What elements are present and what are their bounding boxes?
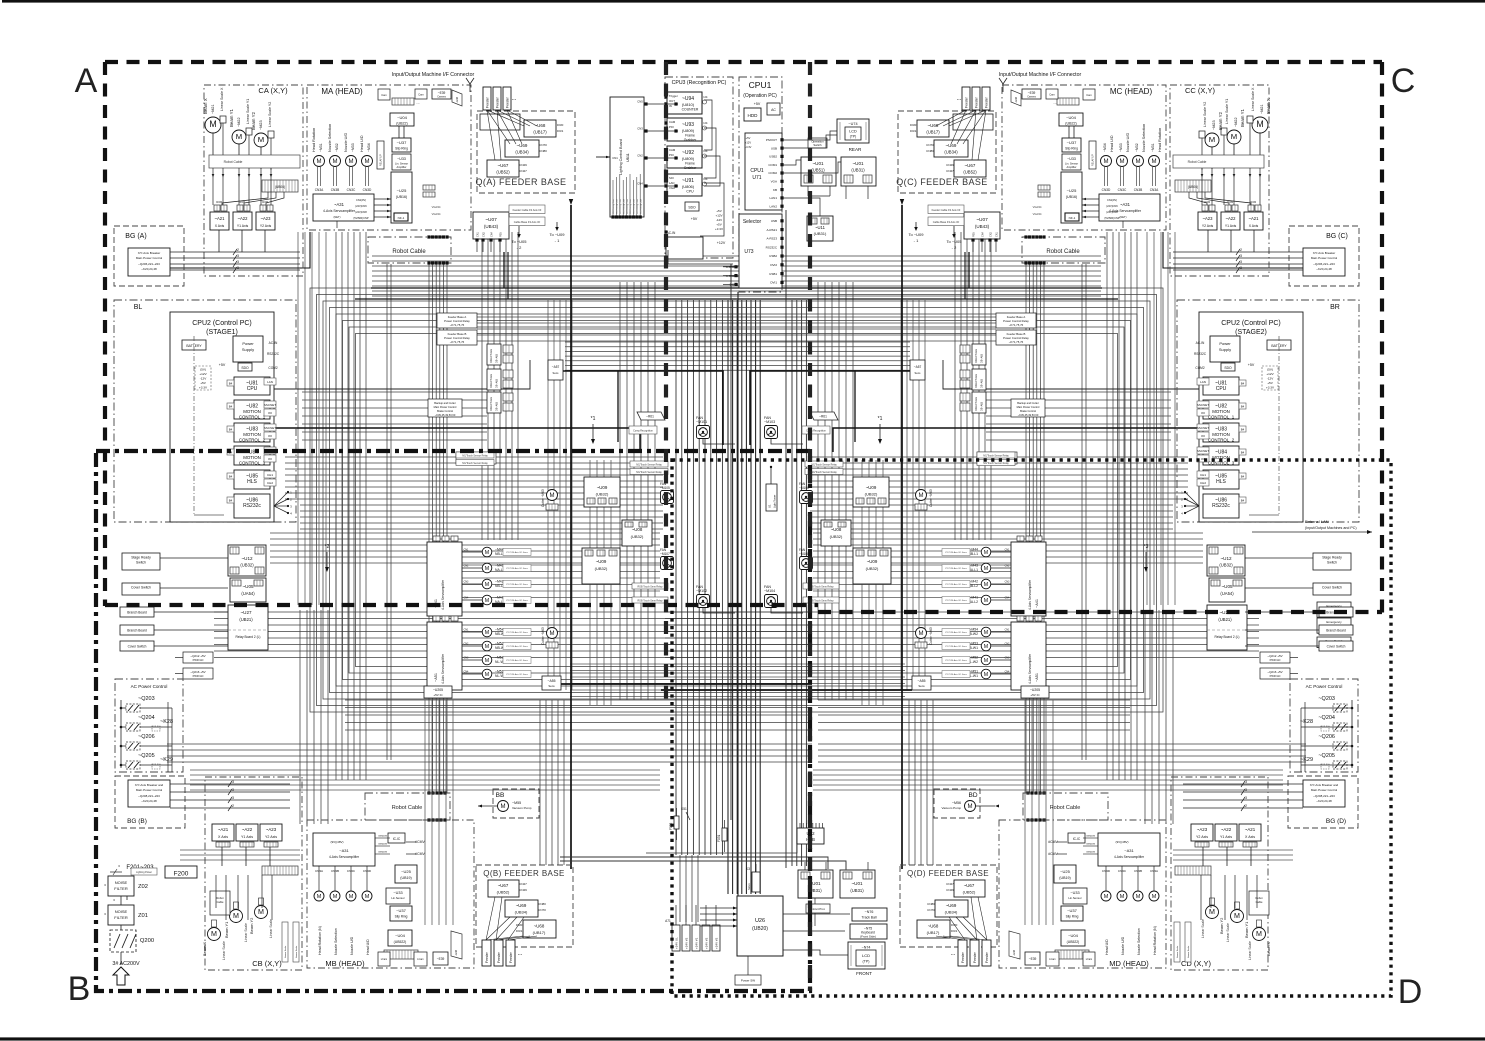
svg-text:A-RS21: A-RS21 (766, 228, 777, 232)
svg-text:HLS: HLS (1216, 479, 1226, 485)
svg-text:CN4: CN4 (464, 597, 469, 600)
wire bus center-upper 3 (565, 355, 910, 357)
block Lighting Control Board UB11 (610, 97, 644, 217)
svg-text:Branch Board: Branch Board (127, 611, 147, 615)
wire axis-cb 1 (CD) (1226, 847, 1228, 866)
wire bus left-ca 5 (365, 232, 367, 780)
svg-text:LCam: LCam (417, 958, 423, 961)
wire bus left-ca2 3 (318, 232, 320, 605)
wire bus mid2-right 5 (813, 562, 1203, 564)
wire bus center-l 6 (710, 300, 712, 855)
block U04 (UB522) (MB) (388, 930, 412, 946)
block +24V #1 2 (692, 925, 700, 951)
block AC inlet CPU1 (767, 103, 780, 115)
motor ~M32 (MA) (330, 156, 341, 167)
block ~A22 Y1 Axis (CA) (233, 212, 252, 230)
block U205 (1021, 686, 1049, 698)
motor M23 (CB) (255, 906, 268, 919)
wire to-U05 arrow (953, 226, 955, 237)
svg-text:~M103: ~M103 (764, 420, 775, 424)
block SDO CPU3 (685, 202, 699, 211)
block power SW (735, 975, 761, 985)
svg-text:- 2: - 2 (517, 245, 522, 250)
svg-text:Trigger: Trigger (669, 94, 678, 98)
svg-text:CONTROL_3: CONTROL_3 (239, 460, 266, 465)
svg-text:CN3D: CN3D (363, 869, 372, 873)
junction row robot-top r 263 (1024, 261, 1027, 264)
svg-text:(UB32): (UB32) (631, 534, 644, 539)
svg-text:3: 3 (232, 796, 234, 800)
block SDO (STAGE2) (1221, 363, 1235, 371)
svg-text:(UB52): (UB52) (496, 170, 510, 175)
wire feeder cross 7 (Q(D)) (971, 897, 977, 940)
svg-text:Stage Ready: Stage Ready (1322, 556, 1342, 560)
motor ~M33 (MC) (1117, 156, 1128, 167)
svg-text:~U69: ~U69 (946, 903, 957, 908)
svg-text:CONTROL_2: CONTROL_2 (239, 437, 266, 442)
svg-text:MOTION: MOTION (1212, 432, 1230, 437)
wire motor feed 3 (CA) (248, 168, 250, 205)
wire bus db-rows-left 6 (302, 439, 487, 441)
wire ~Q204 out (D) (1301, 726, 1333, 728)
svg-text:~K71,75,76: ~K71,75,76 (450, 340, 465, 344)
block AC Power Control (B) frame (115, 679, 183, 772)
junction row robot-bot r 793 (1026, 791, 1029, 794)
wire bus right-mid 3 (838, 282, 840, 700)
relay label Feeder Base A (996, 313, 1036, 328)
wire bus qb-up 2 (551, 700, 553, 865)
wire bus mid-left 1 (285, 462, 663, 464)
wire RS232c fan 2 (STAGE2) (1185, 505, 1199, 507)
sensor label ~M53 (left) (503, 643, 531, 650)
svg-text:NOISE: NOISE (115, 909, 128, 914)
svg-text:CN3: CN3 (1005, 657, 1010, 660)
wire bus db-rows-right 6 (986, 439, 1171, 441)
scale bar 1 (CB) (293, 922, 299, 962)
wire bus mid2-left 5 (270, 562, 660, 564)
svg-text:I24: I24 (704, 95, 708, 99)
svg-text:Robot Cable: Robot Cable (1046, 249, 1080, 255)
svg-text:XY PCB Axis I/O Sens: XY PCB Axis I/O Sens (506, 599, 529, 602)
svg-text:4-Axis Servoamplifier: 4-Axis Servoamplifier (1028, 653, 1032, 684)
wire strip-axis 1 (CA) (244, 192, 276, 205)
wire bus right-mid 5 (852, 282, 854, 700)
wire bus right-robot2 0 (1081, 264, 1083, 760)
wire bus left-qa 4 (505, 232, 507, 540)
svg-text:M: M (236, 132, 242, 141)
block U05 (UA54) (right) (1209, 578, 1245, 602)
wire bus left-ca 1 (341, 232, 343, 780)
svg-text:- 1: - 1 (555, 238, 560, 243)
wire bus center-r 4 (745, 300, 747, 894)
wire lighting channel 8 (639, 174, 641, 217)
svg-text:CN1: CN1 (477, 232, 480, 237)
wire motor feed 1 (CC) (1249, 168, 1251, 205)
svg-text:CN2: CN2 (464, 565, 469, 568)
block ~U92 (U809) (667, 146, 702, 168)
breaker ~Q206 (B) (126, 742, 140, 750)
breaker ~Q206 (D) (1333, 742, 1347, 750)
relay label box 1 (928, 205, 964, 214)
svg-text:Q200: Q200 (140, 938, 154, 944)
svg-text:Main Power Control: Main Power Control (136, 256, 163, 260)
wire to-U09 arrow (556, 222, 558, 230)
wire bus qb-up 4 (563, 700, 565, 865)
block E39 (MD) (1025, 952, 1040, 965)
svg-text:F200: F200 (174, 871, 189, 878)
svg-text:4-Axis Servoamplifier: 4-Axis Servoamplifier (1028, 579, 1032, 610)
block U68 (UB17) (Q(D)) (917, 920, 950, 938)
wire bus acrow-left-lo 1 (167, 749, 812, 751)
svg-text:~U01: ~U01 (851, 881, 863, 886)
svg-text:M: M (365, 894, 370, 900)
svg-text:To ~U09: To ~U09 (549, 232, 565, 237)
svg-text:~Q206,221~223: ~Q206,221~223 (138, 262, 160, 266)
motor ~M43 (right) (981, 563, 991, 573)
wire bus top-center 4 (372, 275, 1101, 277)
svg-text:Head Rotation (N): Head Rotation (N) (318, 926, 322, 955)
svg-text:+5V: +5V (200, 381, 207, 385)
block U74 LCD TP rear (837, 119, 869, 143)
wire bus qd-up 2 (920, 700, 922, 865)
connector strip U06 (CC) (1175, 180, 1211, 192)
svg-text:CN3D: CN3D (1102, 188, 1111, 192)
connector strip U06 (CA) (262, 180, 298, 192)
wire bus db-rows-right 4 (986, 423, 1171, 425)
wire bus right-low 4 (1172, 610, 1174, 824)
wire bus center-l 1 (681, 300, 683, 855)
sensor label ~M52 (left) (503, 657, 531, 664)
svg-text:USB: USB (771, 219, 777, 223)
svg-text:IN: IN (669, 104, 672, 108)
block Selector U73 (739, 214, 782, 288)
wire bus right-cc2 1 (1153, 232, 1155, 605)
camera box 1 (MC) (1083, 89, 1095, 100)
wire bus center-r 5 (750, 300, 752, 894)
svg-text:Feeder: Feeder (985, 96, 989, 108)
svg-text:(UB17): (UB17) (533, 930, 546, 935)
wire A31 aux 1 (MD) (1083, 845, 1098, 847)
wire power drop right (901, 205, 903, 869)
motor ~M31 (MD) (1149, 891, 1159, 901)
wire U26-N75 (783, 930, 845, 932)
svg-text:CN8(2W): CN8(2W) (378, 844, 387, 846)
svg-text:~K71,75,76: ~K71,75,76 (1009, 323, 1024, 327)
wire bus acrow-right-lo 3 (818, 761, 1306, 763)
wire bus acrow-left-hi 1 (345, 707, 812, 709)
svg-text:FILTER: FILTER (114, 886, 128, 891)
block ~A22 Y1 Axis (bottom l) (236, 824, 258, 841)
svg-text:Main Power Control: Main Power Control (1017, 405, 1040, 409)
svg-text:CN4: CN4 (637, 182, 643, 186)
svg-text:2: 2 (232, 804, 234, 808)
wire RS232c fan 1 (STAGE2) (1185, 499, 1199, 506)
wire ~Q204 out (B) (140, 726, 172, 728)
svg-text:Feeder: Feeder (961, 951, 965, 963)
sensor label ~M52 (right) (942, 657, 970, 664)
wire Branch Board 625 (l) (154, 629, 228, 631)
svg-text:CN80: CN80 (538, 902, 546, 906)
svg-text:Feeder: Feeder (965, 96, 969, 108)
wire feeder cross 1 (Q(B)) (496, 936, 530, 940)
svg-text:CN30: CN30 (239, 201, 246, 204)
svg-text:~M108: ~M108 (799, 552, 809, 556)
wire bus a2x-cb-right 1 (1173, 854, 1293, 856)
wire bus left-u09 0 (589, 460, 591, 705)
svg-text:(24V)CN8: (24V)CN8 (1106, 210, 1118, 214)
svg-text:M: M (1234, 912, 1240, 920)
block BG (A) frame (114, 226, 184, 286)
svg-text:Selector: Selector (743, 219, 762, 225)
wire bus mid-cross-l 4 (300, 528, 663, 530)
svg-text:M: M (1209, 908, 1215, 916)
svg-text:CN80: CN80 (539, 149, 547, 153)
wire bus mid3-left 2 (445, 577, 660, 579)
wire ~Q205 out (D) (1301, 764, 1333, 766)
svg-text:~M21: ~M21 (211, 104, 215, 114)
svg-text:*2: *2 (325, 544, 330, 550)
svg-text:C: C (1391, 62, 1416, 100)
wire Branch Board 607 (r) (1245, 611, 1319, 613)
block U33 (MD) (1063, 888, 1087, 904)
svg-text:-12V: -12V (200, 377, 207, 381)
svg-text:CN29: CN29 (519, 163, 527, 167)
block U04 (UB22) (MC) (1059, 113, 1083, 126)
wire bus center-r 3 (741, 300, 743, 894)
block Q(D) FEEDER BASE frame (900, 865, 997, 947)
frame region C bottom (818, 610, 1382, 614)
svg-text:M: M (1152, 894, 1157, 900)
svg-text:BG (C): BG (C) (1326, 233, 1348, 240)
svg-text:~Q212 +5V: ~Q212 +5V (190, 654, 205, 658)
wire bus mid2-right 1 (813, 538, 1203, 540)
svg-text:+5V: +5V (219, 363, 226, 367)
svg-text:M: M (1256, 119, 1263, 129)
svg-text:(Input/Output Machines and PC): (Input/Output Machines and PC) (1305, 526, 1357, 530)
svg-text:Sens: Sens (548, 684, 555, 688)
svg-text:~M23: ~M23 (1212, 120, 1216, 130)
svg-text:Cutter ~M63: Cutter ~M63 (541, 489, 545, 507)
wire power trunk left (561, 683, 812, 685)
wire lighting channel 1 (615, 177, 617, 217)
wire bus mid2-right 2 (813, 544, 1203, 546)
wire servo-motor ~M42 (left) (462, 583, 482, 585)
svg-text:CN3B: CN3B (1134, 188, 1143, 192)
wire bus mid3-right 1 (813, 571, 1028, 573)
motor ~M23 (CA) (254, 133, 268, 147)
svg-text:I24: I24 (704, 177, 708, 181)
svg-text:~U04: ~U04 (1068, 933, 1078, 938)
wire bus mid-cross-r 1 (810, 510, 1173, 512)
wire bus mid-right 3 (810, 474, 1188, 476)
wire bus right-cc 5 (1136, 232, 1138, 780)
svg-text:Robot Cable: Robot Cable (392, 805, 423, 811)
block SDO (STAGE1) (238, 363, 252, 371)
wire bg-out 0 BG (C) (1173, 251, 1303, 253)
svg-text:(UB32): (UB32) (865, 492, 878, 497)
svg-text:Backup and Cutter: Backup and Cutter (1017, 401, 1039, 405)
block U33 (MB) (386, 888, 410, 904)
wire bg-out 3 BG (C) (1173, 269, 1303, 271)
block power supply (STAGE1) (233, 336, 263, 362)
wire bus acrow-left-hi 2 (345, 714, 812, 716)
wire bus low-left 3 (214, 631, 808, 633)
svg-text:Lin.Sensor: Lin.Sensor (391, 896, 404, 900)
block R61 camera 1 (810, 412, 838, 420)
svg-text:~K20,24,48: ~K20,24,48 (141, 267, 157, 271)
feeder connector 2 (Q(A)) (503, 87, 511, 110)
page bottom rule (0, 1037, 1485, 1040)
sensor label ~M51 (right) (942, 671, 970, 678)
svg-text:~M51: ~M51 (495, 670, 504, 674)
wire servo-motor ~M41 (left) (462, 599, 482, 601)
status box (CD) (1249, 891, 1269, 915)
svg-text:COM2: COM2 (268, 366, 277, 370)
svg-text:(UB22): (UB22) (396, 122, 407, 126)
svg-text:CH1: CH1 (267, 473, 273, 477)
svg-text:...: ... (956, 96, 961, 102)
svg-text:~Q206: ~Q206 (1318, 734, 1335, 740)
wire ~Q203 out (B) (140, 707, 172, 709)
wire bus center-r 6 (755, 300, 757, 894)
svg-text:CB (X,Y): CB (X,Y) (252, 959, 282, 968)
svg-text:~M101: ~M101 (696, 420, 707, 424)
svg-text:CA (X,Y): CA (X,Y) (258, 86, 288, 95)
wire bus servo-left 2 (190, 779, 660, 781)
wire bus mid2-left 2 (270, 544, 660, 546)
feeder connector 1 (Q(D)) (970, 940, 979, 966)
wire sscnet left (270, 428, 640, 452)
motor ~M52 (right) (981, 655, 991, 665)
connector header bottom (MB) (384, 950, 418, 959)
svg-text:...: ... (950, 951, 955, 957)
svg-text:4-Axis Servoamplifier: 4-Axis Servoamplifier (441, 579, 445, 610)
svg-text:Feeder: Feeder (486, 96, 490, 108)
connector group A63-1 (r) (972, 369, 986, 390)
svg-text:Beam Y1: Beam Y1 (224, 921, 229, 938)
wire A31 aux 1 (MB) (375, 845, 390, 847)
block U68 (UB17) (Q(B)) (523, 920, 556, 938)
block BG (B) frame (115, 776, 185, 828)
svg-text:XY PCB Axis I/O Sens: XY PCB Axis I/O Sens (945, 673, 968, 676)
svg-text:To ~U09: To ~U09 (908, 232, 924, 237)
svg-text:UB11: UB11 (626, 153, 630, 162)
wire bus center-r2 1 (796, 300, 798, 866)
svg-text:BB: BB (496, 792, 505, 799)
wire bus right-mid 0 (817, 282, 819, 700)
svg-text:(UB32): (UB32) (830, 534, 843, 539)
svg-text:A-RS23: A-RS23 (766, 237, 777, 241)
svg-text:+3.3V: +3.3V (745, 145, 752, 149)
svg-text:M: M (485, 566, 489, 572)
wire feeder cross 7 (Q(A)) (497, 110, 501, 160)
svg-text:XY PCB Axis I/O Sens: XY PCB Axis I/O Sens (506, 583, 529, 586)
motor M63 cutter 0 (r) (916, 490, 927, 501)
svg-text:MOTION: MOTION (243, 409, 261, 414)
wire bus mid-cross-l 0 (300, 504, 663, 506)
svg-text:CN3B: CN3B (331, 188, 340, 192)
svg-text:MB (HEAD): MB (HEAD) (325, 959, 365, 968)
svg-text:X Axis: X Axis (218, 835, 228, 839)
block ~Q216 (l) (183, 668, 213, 679)
aux box 1 (MD) (1083, 952, 1095, 966)
wire motor feed 2 (CC) (1233, 168, 1235, 205)
fuse F031 (722, 828, 727, 841)
svg-text:BL: BL (134, 304, 143, 311)
block U09 (UB32) a (l) (584, 477, 620, 507)
svg-text:(24V)CN8: (24V)CN8 (355, 210, 367, 214)
svg-text:CN3D: CN3D (363, 188, 372, 192)
svg-text:*1: *1 (591, 416, 596, 422)
svg-text:Amplifier: Amplifier (1066, 165, 1076, 169)
svg-text:XY PCB Axis I/O Sens: XY PCB Axis I/O Sens (945, 599, 968, 602)
svg-text:...: ... (1053, 100, 1056, 105)
wire bus center-r 7 (759, 300, 761, 894)
svg-text:(UB16): (UB16) (1066, 195, 1077, 199)
block U68 (UB17) (Q(A)) (524, 120, 556, 137)
svg-text:+3.3V: +3.3V (1266, 386, 1275, 390)
svg-text:Beam Y2: Beam Y2 (1218, 111, 1223, 130)
svg-text:Q(A) FEEDER BASE: Q(A) FEEDER BASE (476, 177, 567, 187)
svg-text:PD Recog Cam: PD Recog Cam (620, 199, 622, 214)
svg-text:Comp.Recognition: Comp.Recognition (633, 430, 653, 433)
block U67 (UB52) (Q(D)) (954, 880, 985, 897)
svg-text:(UB522): (UB522) (394, 940, 407, 944)
svg-text:Beam X: Beam X (202, 941, 207, 956)
block ~A21 X Axis (bottom r) (1239, 824, 1261, 841)
svg-text:(UB19): (UB19) (400, 876, 411, 880)
svg-text:~E39: ~E39 (1028, 91, 1036, 95)
wire bus left-qa2 1 (553, 300, 555, 690)
wire bg-out 3 BG (A) (170, 269, 300, 271)
svg-text:M: M (485, 550, 489, 556)
svg-text:CH2: CH2 (267, 481, 273, 485)
motor ~M53 (right) (981, 641, 991, 651)
wire RS232c fan 2 (STAGE1) (274, 505, 288, 507)
symbol AC inlet arrow (113, 967, 129, 985)
svg-text:(UB32): (UB32) (866, 566, 879, 571)
block ~U83 MOTION (STAGE2) (1203, 423, 1239, 442)
svg-text:(UB43): (UB43) (975, 224, 990, 229)
svg-text:MOTION: MOTION (243, 455, 261, 460)
svg-text:Linear Scale: Linear Scale (284, 945, 287, 958)
wire bus low-left 0 (214, 611, 808, 613)
block +24V #2 3 (702, 925, 710, 951)
sensor label ~M42 (left) (503, 581, 531, 588)
wire bus servo-right 4 (813, 789, 1283, 791)
svg-text:~U09: ~U09 (596, 559, 607, 564)
wire bus mid-right 7 (810, 498, 1188, 500)
wire bus left-robot 2 (435, 264, 437, 793)
svg-text:DB~A63: DB~A63 (496, 401, 499, 411)
aux box 2 (MD) (1046, 952, 1059, 966)
wire bus left-qa 6 (517, 232, 519, 540)
motor M21 (CB) (208, 928, 221, 941)
svg-text:CN4: CN4 (1005, 597, 1010, 600)
block HDD (744, 108, 761, 121)
svg-text:M: M (485, 644, 489, 650)
wire feeder cross 0 (Q(D)) (950, 936, 987, 940)
svg-text:IO31: IO31 (951, 929, 958, 933)
svg-text:Camera: Camera (1027, 96, 1036, 99)
svg-text:(UB52): (UB52) (963, 890, 976, 895)
motor ~M22 (CA) (232, 130, 246, 144)
wire bus right-qc 6 (990, 232, 992, 540)
wire bus low-cross 1 (570, 670, 905, 672)
svg-text:~Q205: ~Q205 (138, 753, 155, 759)
block Q(C) FEEDER BASE frame (898, 111, 996, 193)
svg-text:~A22: ~A22 (1226, 216, 1237, 221)
